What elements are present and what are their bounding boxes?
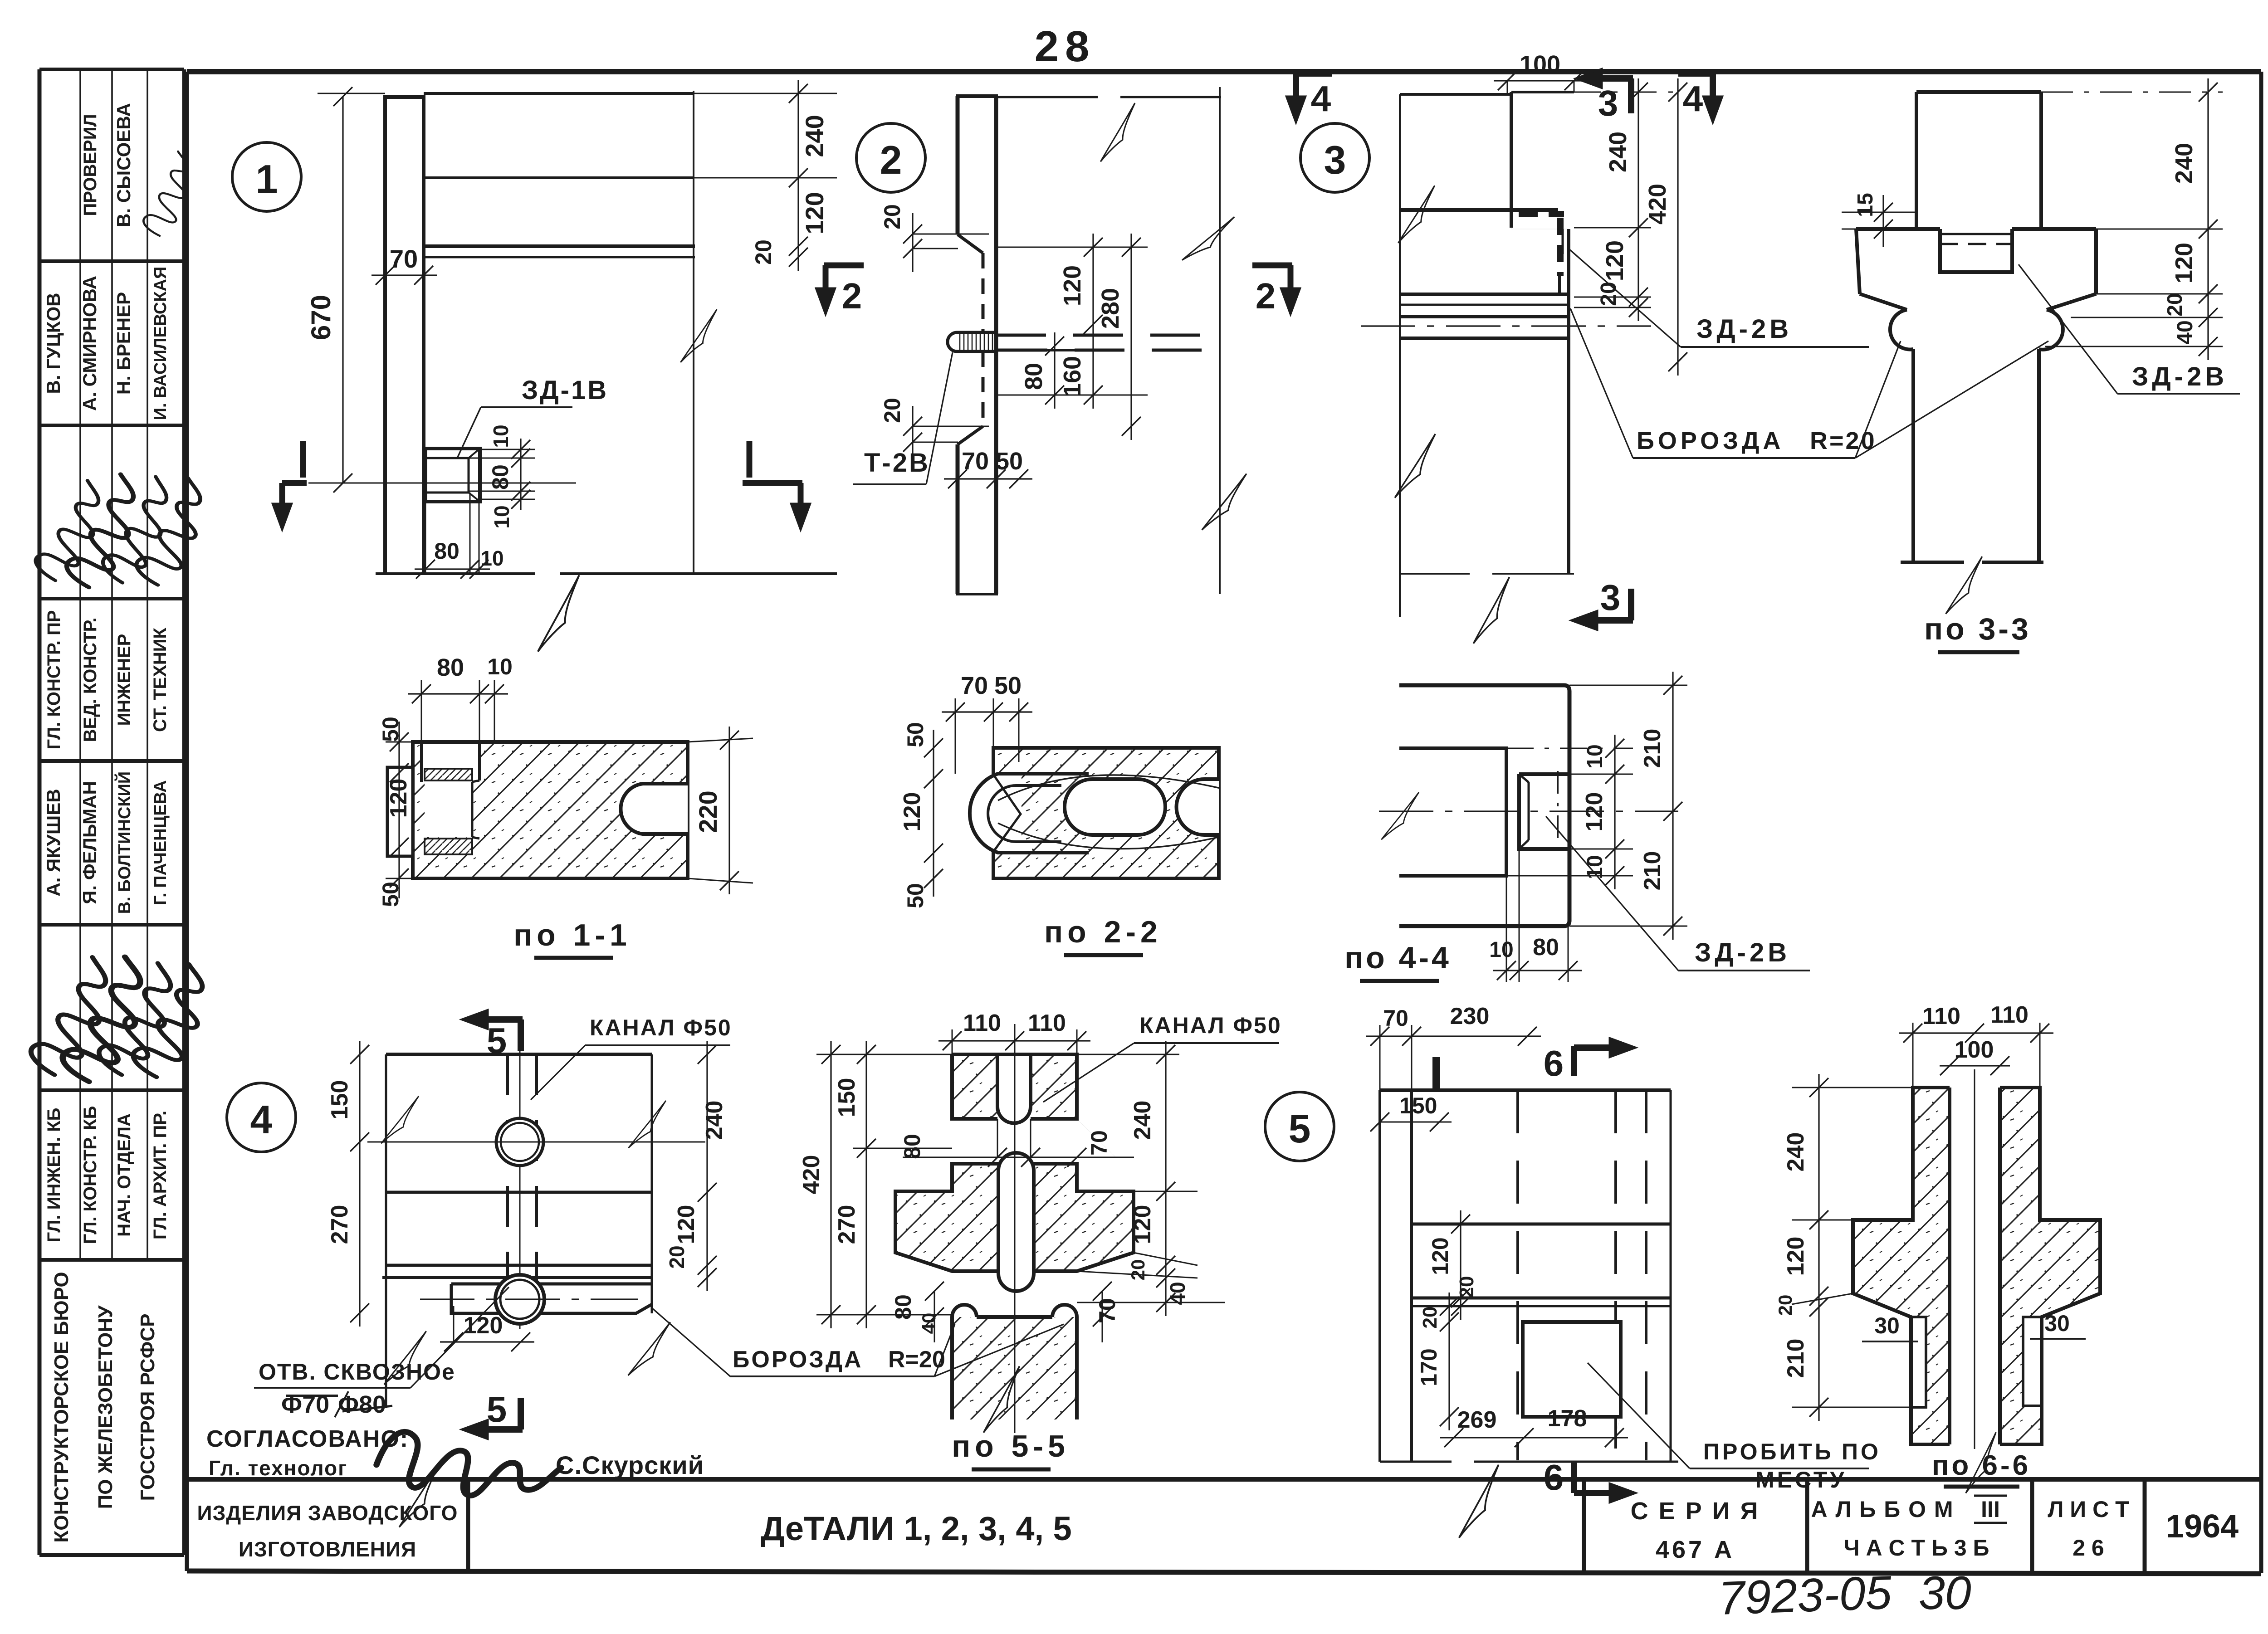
- svg-text:ЗД-2В: ЗД-2В: [2132, 362, 2228, 391]
- 1-1 dim 220: [688, 738, 753, 742]
- svg-text:ПО ЖЕЛЕЗОБЕТОНУ: ПО ЖЕЛЕЗОБЕТОНУ: [94, 1305, 117, 1509]
- detail1 right dims 240/120/20: [424, 93, 837, 94]
- sheet frame: [187, 69, 2261, 74]
- svg-text:С Е Р И Я: С Е Р И Я: [1631, 1497, 1760, 1525]
- svg-text:50: 50: [378, 882, 403, 907]
- svg-text:3: 3: [1324, 137, 1346, 182]
- svg-text:БОРОЗДА: БОРОЗДА: [1637, 427, 1784, 454]
- 2-2 dims 70/50: [955, 698, 956, 774]
- svg-text:80: 80: [488, 464, 513, 490]
- detail5 dims 269/178: [1440, 1437, 1628, 1438]
- svg-text:20: 20: [880, 398, 905, 423]
- svg-text:А. СМИРНОВА: А. СМИРНОВА: [79, 276, 100, 411]
- svg-text:120: 120: [1059, 265, 1086, 306]
- svg-text:220: 220: [694, 790, 722, 833]
- svg-text:240: 240: [800, 115, 829, 157]
- 6-6 left dim chain 240/120/20/210: [1792, 1087, 1913, 1088]
- svg-text:ПРОБИТЬ: ПРОБИТЬ: [1703, 1439, 1834, 1464]
- svg-text:178: 178: [1548, 1405, 1587, 1432]
- detail3 corner embed dashes: [1519, 211, 1564, 217]
- svg-text:70: 70: [961, 672, 988, 699]
- svg-text:10: 10: [1489, 938, 1513, 962]
- svg-text:10: 10: [489, 424, 513, 448]
- svg-text:30: 30: [1919, 1567, 1971, 1619]
- detail4 slab lines: [386, 1191, 652, 1194]
- svg-text:10: 10: [1583, 744, 1607, 768]
- 5-5 middle block: [895, 1164, 1134, 1271]
- section 3-3 column outline: [1856, 92, 2096, 562]
- detail5 channel dashes: [1516, 1090, 1519, 1460]
- svg-text:10: 10: [480, 546, 503, 570]
- detail circle 4: [227, 1083, 296, 1152]
- svg-text:70: 70: [1383, 1005, 1408, 1031]
- svg-text:150: 150: [1399, 1093, 1437, 1118]
- 1-1 notch: [421, 744, 479, 782]
- svg-text:670: 670: [306, 295, 336, 340]
- svg-text:120: 120: [1129, 1205, 1156, 1244]
- detail2 hidden channel dashes: [996, 334, 1220, 337]
- staff table grid: [39, 69, 184, 1555]
- svg-text:10: 10: [490, 505, 513, 528]
- svg-text:5: 5: [487, 1020, 507, 1061]
- svg-text:Гл. технолог: Гл. технолог: [209, 1456, 347, 1480]
- svg-text:ГОССТРОЯ РСФСР: ГОССТРОЯ РСФСР: [137, 1314, 159, 1501]
- 4-4 dims 210/210: [1569, 685, 1687, 686]
- svg-text:80: 80: [899, 1134, 925, 1159]
- svg-text:А Л Ь Б О М: А Л Ь Б О М: [1811, 1497, 1954, 1522]
- chief technologist signature: [374, 1419, 563, 1503]
- svg-text:НАЧ. ОТДЕЛА: НАЧ. ОТДЕЛА: [114, 1113, 134, 1237]
- detail5 wall top: [1380, 1088, 1671, 1092]
- 1-1 embed flange top: [425, 769, 472, 780]
- svg-text:Л И С Т: Л И С Т: [2048, 1497, 2129, 1522]
- detail1 floor line: [376, 572, 535, 575]
- svg-text:2 6: 2 6: [2072, 1535, 2104, 1561]
- section 1-1 body (hatched): [413, 742, 688, 878]
- section mark 3 top: [1592, 75, 1633, 82]
- svg-text:70: 70: [390, 244, 418, 273]
- section 3-3 top notch: [1940, 229, 2012, 272]
- section mark 2 right: [1252, 263, 1292, 268]
- svg-text:III: III: [1981, 1497, 2000, 1522]
- svg-text:ИЗГОТОВЛЕНИЯ: ИЗГОТОВЛЕНИЯ: [239, 1537, 416, 1561]
- svg-text:80: 80: [1533, 934, 1559, 961]
- svg-text:4: 4: [1311, 78, 1331, 119]
- 5-5 lower small dims 80/40/70: [934, 1291, 935, 1342]
- svg-text:50: 50: [903, 722, 928, 747]
- svg-text:20: 20: [751, 239, 776, 265]
- detail circle 2: [856, 123, 925, 192]
- svg-text:150: 150: [834, 1078, 860, 1117]
- svg-text:50: 50: [378, 717, 403, 742]
- section mark 5 top: [478, 1016, 523, 1023]
- svg-text:120: 120: [899, 792, 925, 832]
- 1-1 embed flange bottom: [425, 839, 472, 854]
- svg-text:120: 120: [386, 779, 412, 818]
- svg-text:230: 230: [1450, 1003, 1490, 1029]
- svg-text:467 А: 467 А: [1656, 1536, 1735, 1563]
- 5-5 dim 70 upper right: [1077, 1119, 1116, 1157]
- svg-text:240: 240: [1604, 132, 1632, 172]
- detail2 dims 120/280/80/160: [996, 247, 1148, 248]
- dim 670: [342, 97, 343, 483]
- section mark 4 top (left of pair): [1294, 70, 1332, 77]
- section 3-3 dim 15: [1842, 229, 1856, 230]
- detail5 dims 120/20: [1412, 1224, 1452, 1224]
- 2-2 left dim chain: [933, 730, 934, 897]
- 4-4 embed box: [1519, 774, 1569, 849]
- svg-text:ИЗДЕЛИЯ ЗАВОДСКОГО: ИЗДЕЛИЯ ЗАВОДСКОГО: [197, 1501, 458, 1525]
- svg-text:110: 110: [1990, 1002, 2028, 1028]
- detail3 center line: [1361, 325, 1651, 327]
- svg-text:1: 1: [256, 156, 278, 201]
- svg-text:В. ГУЦКОВ: В. ГУЦКОВ: [43, 293, 64, 394]
- svg-text:120: 120: [1581, 792, 1608, 832]
- 5-5 central capsule void: [998, 1153, 1034, 1291]
- svg-text:240: 240: [1129, 1101, 1156, 1140]
- detail4 dim 120 bottom: [440, 1341, 534, 1342]
- svg-text:Г. ПАЧЕНЦЕВА: Г. ПАЧЕНЦЕВА: [151, 780, 170, 905]
- detail4 right dims 240/120/20: [706, 1041, 708, 1291]
- svg-text:50: 50: [994, 672, 1022, 699]
- svg-text:МЕСТУ: МЕСТУ: [1755, 1467, 1847, 1493]
- detail1 embed dims 10/80/10: [480, 449, 535, 450]
- svg-text:240: 240: [1783, 1132, 1809, 1172]
- detail1 right edge: [693, 91, 694, 574]
- svg-text:КАНАЛ Ф50: КАНАЛ Ф50: [1139, 1013, 1282, 1038]
- section 3-3 dim chain: [2041, 92, 2223, 93]
- svg-text:ГЛ. КОНСТР. ПР: ГЛ. КОНСТР. ПР: [44, 610, 64, 749]
- svg-text:110: 110: [1028, 1010, 1066, 1036]
- detail3 dim 420: [1677, 78, 1678, 376]
- svg-text:80: 80: [434, 538, 459, 564]
- detail5 dims 20/170: [1448, 1293, 1450, 1430]
- detail3 groove lines: [1400, 293, 1569, 296]
- svg-text:ЗД-2В: ЗД-2В: [1696, 314, 1792, 344]
- svg-text:ЗД-2В: ЗД-2В: [1695, 938, 1790, 967]
- svg-text:по 2-2: по 2-2: [1044, 915, 1162, 949]
- detail3 dim chain 240/120/20: [1574, 92, 1678, 93]
- detail2 dim 20 lower: [913, 426, 989, 427]
- 1-1 left dim chain 50/120/50: [386, 741, 413, 743]
- svg-text:120: 120: [673, 1205, 699, 1244]
- detail1 embed dims 80/10 bottom: [425, 502, 426, 572]
- svg-text:4: 4: [250, 1097, 273, 1142]
- svg-text:ГЛ. ИНЖЕН. КБ: ГЛ. ИНЖЕН. КБ: [44, 1108, 64, 1243]
- detail2 right edge line: [1219, 87, 1221, 594]
- svg-text:по 4-4: по 4-4: [1344, 941, 1452, 975]
- svg-text:20: 20: [2163, 293, 2186, 316]
- svg-text:50: 50: [996, 448, 1023, 475]
- svg-text:120: 120: [1427, 1237, 1453, 1275]
- svg-text:20: 20: [1774, 1295, 1796, 1316]
- detail2 wall faces: [956, 96, 960, 234]
- section mark 1 right: [747, 441, 753, 478]
- svg-text:3: 3: [1600, 577, 1621, 618]
- detail5 bottom: [1380, 1461, 1452, 1463]
- detail5 square hole: [1523, 1322, 1621, 1417]
- detail5 dims 70/230: [1379, 1025, 1381, 1090]
- detail1 slab lines: [424, 92, 694, 95]
- svg-text:240: 240: [701, 1101, 728, 1140]
- svg-text:Т-2В: Т-2В: [864, 448, 930, 478]
- svg-text:150: 150: [327, 1080, 353, 1120]
- svg-text:30: 30: [2044, 1311, 2070, 1336]
- svg-text:120: 120: [800, 192, 829, 234]
- svg-text:3: 3: [1598, 83, 1618, 123]
- 5-5 groove bumps: [952, 1305, 977, 1317]
- svg-text:20: 20: [665, 1245, 689, 1268]
- 4-4 bottom dims 10/80: [1506, 876, 1507, 982]
- 5-5 dim 110 110: [952, 1029, 953, 1054]
- svg-text:80: 80: [437, 654, 464, 681]
- staff row: signatures 2: [28, 950, 110, 1081]
- 5-5 right dims 240/120/20/40: [1077, 1054, 1179, 1055]
- detail3 dim 100: [1494, 80, 1588, 81]
- 1-1 adjacent panel: [387, 767, 413, 856]
- svg-text:80: 80: [1020, 363, 1047, 390]
- detail5 wall faces: [1378, 1090, 1381, 1462]
- section 2-2 body (hatched): [993, 748, 1219, 878]
- svg-text:В. БОЛТИНСКИЙ: В. БОЛТИНСКИЙ: [114, 771, 134, 914]
- svg-text:28: 28: [1035, 22, 1096, 71]
- svg-text:по 1-1: по 1-1: [513, 918, 631, 952]
- svg-text:70: 70: [962, 448, 989, 475]
- 5-5 left dims 150/270/420: [816, 1054, 952, 1055]
- svg-text:100: 100: [1520, 51, 1560, 78]
- 6-6 dims 110/110/100: [1912, 1023, 1914, 1088]
- 6-6 right strip: [2000, 1088, 2100, 1444]
- detail4 wall faces: [385, 1054, 387, 1408]
- svg-text:ГЛ. КОНСТР. КБ: ГЛ. КОНСТР. КБ: [80, 1106, 100, 1244]
- svg-text:20: 20: [1127, 1259, 1149, 1281]
- svg-text:6: 6: [1544, 1043, 1564, 1083]
- svg-text:10: 10: [487, 654, 513, 679]
- svg-text:ВЕД. КОНСТР.: ВЕД. КОНСТР.: [80, 618, 100, 742]
- svg-text:СТ. ТЕХНИК: СТ. ТЕХНИК: [150, 627, 170, 732]
- svg-text:70: 70: [1095, 1298, 1120, 1323]
- svg-text:210: 210: [1783, 1339, 1809, 1378]
- detail3 bottom: [1400, 573, 1470, 575]
- svg-text:280: 280: [1097, 288, 1124, 329]
- svg-text:120: 120: [1783, 1237, 1809, 1276]
- svg-text:120: 120: [2170, 243, 2198, 283]
- svg-text:20: 20: [1597, 282, 1621, 306]
- svg-text:5: 5: [1289, 1106, 1311, 1151]
- detail3 left wall edge: [1399, 94, 1401, 617]
- detail3 upper wall: [1400, 93, 1511, 96]
- svg-text:40: 40: [1166, 1282, 1189, 1305]
- detail circle 3: [1300, 123, 1369, 192]
- 2-2 rebar curves: [998, 775, 1220, 800]
- 5-5 top block: [952, 1054, 1077, 1119]
- svg-text:2: 2: [1256, 276, 1276, 316]
- svg-text:ИНЖЕНЕР: ИНЖЕНЕР: [114, 634, 134, 726]
- svg-text:70: 70: [1086, 1130, 1112, 1156]
- 6-6 left strip: [1853, 1088, 1950, 1444]
- detail5 dim 150: [1380, 1122, 1452, 1123]
- svg-text:Н. БРЕНЕР: Н. БРЕНЕР: [113, 292, 134, 395]
- detail2 top slab line: [996, 96, 1098, 98]
- svg-text:по 3-3: по 3-3: [1924, 612, 2031, 646]
- svg-text:210: 210: [1639, 729, 1666, 768]
- detail4 groove recess: [451, 1284, 652, 1313]
- svg-text:30: 30: [1874, 1313, 1900, 1338]
- detail circle 1: [232, 142, 301, 211]
- svg-text:210: 210: [1639, 851, 1666, 891]
- 5-5 channel axis: [1014, 1024, 1016, 1433]
- svg-text:50: 50: [903, 883, 928, 908]
- svg-text:10: 10: [1583, 855, 1607, 879]
- svg-text:110: 110: [963, 1010, 1001, 1036]
- svg-text:15: 15: [1853, 193, 1877, 217]
- svg-text:БОРОЗДА: БОРОЗДА: [733, 1346, 863, 1373]
- title block frame: [187, 1479, 2261, 1574]
- detail4 bottom squiggles: [399, 1458, 440, 1533]
- section mark 4 top right: [1678, 70, 1715, 77]
- staff row: signatures 1: [33, 474, 102, 585]
- svg-text:5: 5: [487, 1389, 507, 1429]
- embed ZD-1V: [425, 449, 480, 502]
- svg-text:4: 4: [1683, 78, 1703, 119]
- 4-4 inner opening: [1399, 748, 1506, 876]
- detail4 wall top: [386, 1053, 652, 1056]
- detail3 right face: [1567, 229, 1570, 574]
- svg-text:40: 40: [918, 1313, 939, 1334]
- plug T-2V: [948, 332, 997, 351]
- detail circle 5: [1265, 1092, 1334, 1161]
- svg-text:Я. ФЕЛЬМАН: Я. ФЕЛЬМАН: [79, 781, 100, 904]
- detail4 channel axis: [519, 1029, 521, 1329]
- svg-text:1964: 1964: [2166, 1508, 2239, 1545]
- svg-text:20: 20: [1419, 1307, 1441, 1329]
- detail2 dim 20 upper: [913, 234, 989, 235]
- svg-text:В. СЫСОЕВА: В. СЫСОЕВА: [113, 103, 134, 227]
- svg-text:100: 100: [1955, 1037, 1994, 1063]
- svg-text:С.Скурский: С.Скурский: [556, 1451, 704, 1479]
- svg-text:7923-05: 7923-05: [1718, 1566, 1893, 1625]
- svg-text:20: 20: [880, 204, 905, 229]
- detail5 slab lines: [1412, 1223, 1671, 1226]
- 4-4 right dims 10/120/10: [1506, 748, 1633, 749]
- svg-text:120: 120: [464, 1312, 503, 1339]
- svg-text:240: 240: [2170, 143, 2198, 184]
- svg-text:Ч А С Т Ь 3 Б: Ч А С Т Ь 3 Б: [1844, 1535, 1989, 1561]
- 5-5 bottom block: [952, 1317, 1077, 1419]
- svg-text:270: 270: [834, 1205, 860, 1244]
- 6-6 channel axis: [1974, 1069, 1975, 1449]
- svg-text:80: 80: [890, 1294, 916, 1320]
- 5-5 dim 80 upper: [997, 1119, 998, 1157]
- section mark 1 left: [300, 441, 306, 478]
- svg-text:И. ВАСИЛЕВСКАЯ: И. ВАСИЛЕВСКАЯ: [151, 267, 170, 420]
- svg-text:по 5-5: по 5-5: [952, 1429, 1070, 1463]
- svg-text:ДеТАЛИ 1, 2, 3, 4, 5: ДеТАЛИ 1, 2, 3, 4, 5: [761, 1510, 1072, 1547]
- 4-4 center line: [1379, 810, 1678, 812]
- svg-text:R=20: R=20: [1810, 427, 1877, 454]
- section 4-4 outer: [1399, 685, 1569, 926]
- svg-text:270: 270: [327, 1205, 353, 1244]
- 1-1 dims 80/10: [421, 680, 422, 744]
- dim 70 (wall): [371, 274, 437, 276]
- detail4 left dims 150/270: [359, 1041, 360, 1327]
- svg-text:по 6-6: по 6-6: [1932, 1450, 2031, 1481]
- svg-text:20: 20: [1456, 1276, 1478, 1298]
- svg-text:120: 120: [1601, 240, 1628, 281]
- svg-text:2: 2: [842, 276, 862, 316]
- section mark 5 bottom: [518, 1398, 524, 1429]
- svg-text:КОНСТРУКТОРСКОЕ БЮРО: КОНСТРУКТОРСКОЕ БЮРО: [50, 1272, 73, 1542]
- svg-text:420: 420: [1644, 184, 1671, 224]
- section trace 1-1: [308, 483, 576, 484]
- svg-text:ГЛ. АРХИТ. ПР.: ГЛ. АРХИТ. ПР.: [150, 1111, 170, 1239]
- detail2 dims 70/50: [944, 478, 1032, 479]
- svg-text:40: 40: [2173, 320, 2197, 344]
- section mark 2 left: [824, 263, 864, 268]
- 1-1 oval slot: [621, 784, 688, 834]
- detail1 wall: [383, 97, 387, 574]
- svg-text:2: 2: [880, 137, 902, 182]
- svg-text:ЗД-1В: ЗД-1В: [522, 376, 608, 405]
- svg-text:269: 269: [1457, 1407, 1497, 1433]
- svg-text:ПРОВЕРИЛ: ПРОВЕРИЛ: [80, 114, 100, 216]
- section mark 6 top: [1571, 1046, 1577, 1076]
- section mark 6 bottom: [1571, 1461, 1577, 1493]
- detail4 channel dashes: [506, 1054, 509, 1306]
- svg-text:ПО: ПО: [1842, 1439, 1881, 1464]
- svg-text:160: 160: [1059, 356, 1086, 397]
- svg-text:КАНАЛ Ф50: КАНАЛ Ф50: [590, 1015, 732, 1040]
- svg-text:Ф80: Ф80: [338, 1391, 386, 1418]
- svg-text:СОГЛАСОВАНО:: СОГЛАСОВАНО:: [206, 1426, 409, 1452]
- 2-2 oval voids: [1065, 779, 1165, 835]
- 2-2 tongue: [971, 776, 1022, 851]
- svg-text:170: 170: [1416, 1348, 1442, 1386]
- svg-text:420: 420: [798, 1155, 825, 1195]
- detail4 circles (channel): [496, 1118, 543, 1166]
- svg-text:А. ЯКУШЕВ: А. ЯКУШЕВ: [43, 789, 64, 896]
- svg-text:6: 6: [1544, 1457, 1564, 1497]
- svg-text:110: 110: [1922, 1003, 1960, 1029]
- section mark 3 bottom: [1628, 589, 1634, 620]
